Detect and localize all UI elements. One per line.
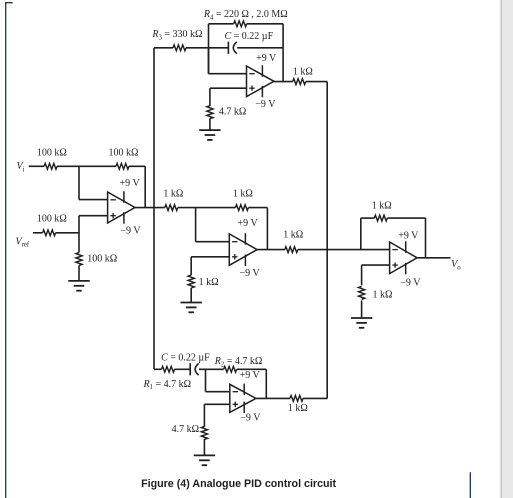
resistor 1k P input <box>165 205 178 211</box>
svg-text:1 kΩ: 1 kΩ <box>163 188 183 199</box>
wire U1 plus input <box>79 215 108 217</box>
wire P output to summing node <box>298 249 390 251</box>
svg-text:−9 V: −9 V <box>240 412 261 423</box>
svg-text:100 kΩ: 100 kΩ <box>109 147 139 158</box>
wire R4 left vertical <box>208 24 210 74</box>
svg-text:−9 V: −9 V <box>400 278 421 289</box>
ground U2 plus network <box>199 130 220 140</box>
svg-text:R3 = 330 kΩ: R3 = 330 kΩ <box>151 29 202 41</box>
resistor R3 differentiator input <box>173 45 186 51</box>
svg-text:R2 = 4.7 kΩ: R2 = 4.7 kΩ <box>214 356 263 368</box>
resistor 100k U1 feedback <box>116 163 129 169</box>
resistor 4.7k U5 plus to ground <box>201 426 207 439</box>
wire U1 feedback right vertical <box>144 166 146 207</box>
wire bus to R3 <box>154 47 173 49</box>
wire resistor to ground <box>78 266 80 281</box>
resistor 4.7k U2 plus to ground <box>207 106 213 119</box>
resistor 1k U4 feedback <box>374 215 387 221</box>
svg-text:Vi: Vi <box>17 161 25 173</box>
resistor R2 integrator feedback <box>224 366 237 372</box>
svg-text:4.7 kΩ: 4.7 kΩ <box>219 107 246 118</box>
svg-text:1 kΩ: 1 kΩ <box>288 403 308 414</box>
svg-text:C = 0.22 µF: C = 0.22 µF <box>161 353 210 364</box>
svg-text:+9 V: +9 V <box>238 218 259 229</box>
svg-text:−9 V: −9 V <box>240 268 261 279</box>
wire error signal bus vertical <box>153 48 155 370</box>
svg-text:100 kΩ: 100 kΩ <box>37 214 67 225</box>
ground U3 plus network <box>181 303 202 313</box>
wire U2 resistor to ground <box>209 118 211 130</box>
wire U4 feedback left vertical <box>360 218 362 250</box>
wire U1 plus branch vertical <box>78 216 80 253</box>
wire Vref to plus node <box>56 232 79 234</box>
svg-text:+9 V: +9 V <box>398 230 419 241</box>
resistor R1 integrator input <box>162 366 175 372</box>
resistor 100k Vref input <box>43 230 56 236</box>
svg-text:100 kΩ: 100 kΩ <box>37 147 67 158</box>
wire U5 feedback right vertical <box>265 369 267 398</box>
wire U3 feedback right vertical <box>266 208 268 250</box>
svg-text:100 kΩ: 100 kΩ <box>87 253 117 264</box>
wire U4 plus input <box>362 264 390 266</box>
wire U5 plus input <box>204 403 229 405</box>
wire U5 minus input <box>206 391 230 393</box>
wire U5 resistor to ground <box>203 439 205 456</box>
svg-text:−9 V: −9 V <box>255 99 276 110</box>
wire I output to summing bus <box>303 397 327 399</box>
wire U4 resistor to ground <box>361 301 363 319</box>
svg-text:C = 0.22 µF: C = 0.22 µF <box>225 31 274 42</box>
resistor 1k U3 plus to ground <box>188 275 194 288</box>
ground U1 plus network <box>68 281 89 291</box>
op-amp U4 summing amplifier <box>390 241 418 274</box>
resistor 100k U1 plus to ground <box>76 253 82 266</box>
resistor 1k I output <box>290 396 303 402</box>
op-amp U1 error amplifier <box>108 191 135 223</box>
wire U1 output <box>135 207 165 209</box>
svg-text:4.7 kΩ: 4.7 kΩ <box>172 424 199 435</box>
wire U1 minus branch vertical <box>78 166 80 199</box>
wire U3 resistor to ground <box>190 288 192 303</box>
wire Vref input <box>33 232 43 234</box>
svg-text:1 kΩ: 1 kΩ <box>233 189 253 200</box>
wire U3 output <box>257 249 285 251</box>
wire U5 output <box>256 397 290 399</box>
capacitor C differentiator <box>228 42 236 54</box>
svg-text:1 kΩ: 1 kΩ <box>293 67 313 78</box>
wire U3 minus branch vertical <box>195 208 197 242</box>
svg-text:1 kΩ: 1 kΩ <box>372 200 392 211</box>
wire U2 output <box>274 81 293 83</box>
wire P feedback to right corner <box>248 207 267 209</box>
wire R3 to cap plate <box>186 47 228 49</box>
ground U4 plus network <box>351 318 372 328</box>
wire U4 feedback right top <box>387 217 425 219</box>
wire U3 plus input <box>191 256 229 258</box>
wire cap to R2 node <box>199 368 224 370</box>
wire R4 right vertical <box>282 24 284 82</box>
svg-text:+9 V: +9 V <box>240 370 261 381</box>
wire U4 output <box>417 257 450 259</box>
wire P input to feedback node <box>178 207 236 209</box>
wire feedback to right corner <box>129 165 145 167</box>
wire bus corner to R1 <box>154 368 162 370</box>
wire U3 plus branch vertical <box>190 257 192 275</box>
op-amp U2 differentiator <box>247 65 274 97</box>
svg-text:+9 V: +9 V <box>256 53 277 64</box>
resistor 1k P feedback <box>235 205 248 211</box>
wire U2 minus input <box>209 73 247 75</box>
svg-text:1 kΩ: 1 kΩ <box>199 277 219 288</box>
svg-text:−9 V: −9 V <box>120 226 141 237</box>
wire U4 feedback left top <box>361 217 375 219</box>
svg-text:1 kΩ: 1 kΩ <box>283 229 303 240</box>
wire U2 plus input <box>210 87 247 89</box>
wire node to U2 minus vertical <box>208 48 210 74</box>
wire U1 minus input <box>79 199 108 201</box>
svg-text:+9 V: +9 V <box>120 178 141 189</box>
resistor 100k Vi input <box>44 163 57 169</box>
wire D output to summing bus <box>306 81 328 83</box>
wire U4 feedback right vertical <box>425 218 427 258</box>
resistor 1k P output <box>285 247 298 253</box>
wire Vi input <box>29 165 45 167</box>
svg-text:Vo: Vo <box>451 259 461 271</box>
svg-text:R1 = 4.7 kΩ: R1 = 4.7 kΩ <box>143 379 192 391</box>
op-amp U3 proportional <box>229 233 257 266</box>
wire Vi to feedback node <box>57 165 116 167</box>
wire summing bus vertical <box>326 82 328 399</box>
capacitor C integrator <box>190 363 198 375</box>
ground U5 plus network <box>194 455 215 465</box>
wire U5 minus branch vertical <box>205 369 207 391</box>
svg-text:1 kΩ: 1 kΩ <box>373 290 393 301</box>
resistor 1k U4 plus to ground <box>359 286 365 299</box>
wire R2 to right corner <box>237 368 267 370</box>
resistor 1k D output <box>293 79 306 85</box>
wire U2 plus branch vertical <box>209 88 211 106</box>
wire U5 plus branch vertical <box>203 404 205 427</box>
svg-text:Figure (4) Analogue PID contro: Figure (4) Analogue PID control circuit <box>141 478 336 490</box>
wire U3 minus input <box>196 241 230 243</box>
svg-text:R4 = 220 Ω , 2.0 MΩ: R4 = 220 Ω , 2.0 MΩ <box>203 9 288 21</box>
wire R4 feedback top right <box>247 23 283 25</box>
op-amp U5 integrator <box>230 384 256 414</box>
wire R4 feedback top left <box>209 23 234 25</box>
wire U4 plus branch vertical <box>361 265 363 285</box>
wire cap to right vertical <box>237 47 283 49</box>
svg-text:Vref: Vref <box>16 236 30 248</box>
resistor R4 feedback <box>234 21 247 27</box>
wire R1 to cap plate <box>175 368 191 370</box>
